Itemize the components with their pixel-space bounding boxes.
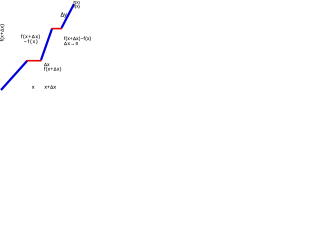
svg-text:f(x): f(x) <box>74 3 81 8</box>
svg-text:f(x+Δx): f(x+Δx) <box>44 66 62 71</box>
svg-text:x+Δx: x+Δx <box>45 84 57 90</box>
svg-text:Δy: Δy <box>61 12 68 18</box>
svg-text:−f(x): −f(x) <box>24 39 39 44</box>
svg-text:f(x+Δx)−f(x): f(x+Δx)−f(x) <box>64 36 92 41</box>
svg-text:Δx→0: Δx→0 <box>64 41 79 46</box>
svg-text:f(x+Δx): f(x+Δx) <box>0 24 5 42</box>
